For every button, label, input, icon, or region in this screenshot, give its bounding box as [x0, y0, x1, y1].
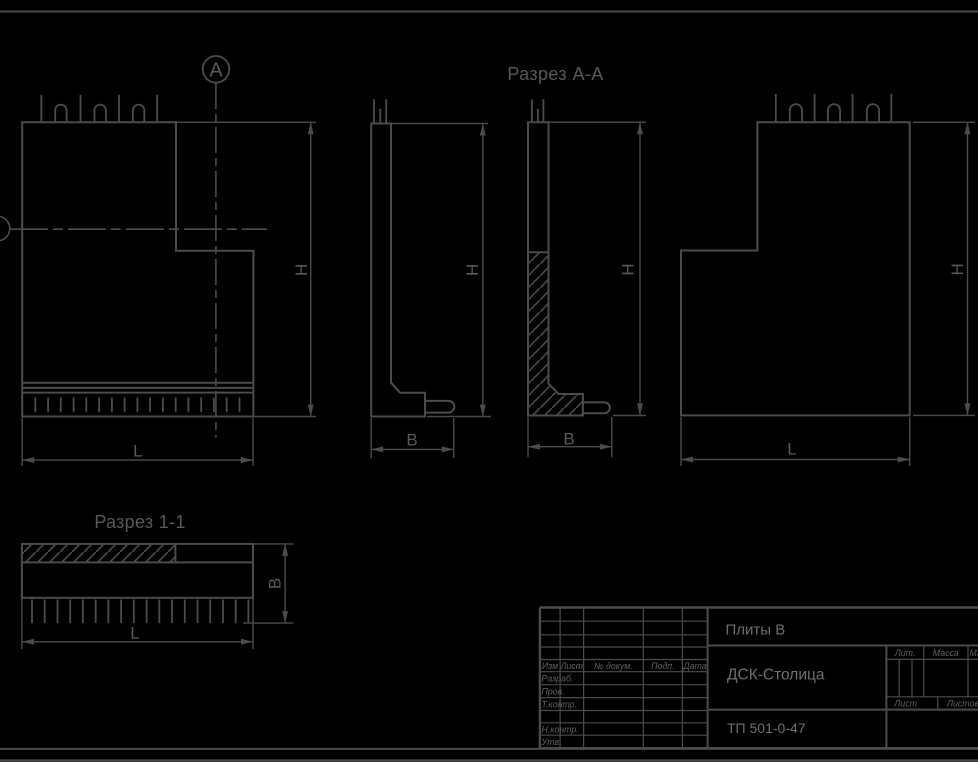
view5 dim L arrows — [22, 639, 253, 645]
svg-text:Разрез А-А: Разрез А-А — [507, 64, 603, 84]
view1 marker circle A — [203, 56, 230, 83]
view3 dim B line — [528, 446, 612, 448]
title block left columns — [560, 608, 682, 749]
view1 section line A vertical — [215, 83, 217, 438]
view2 dim H ext bottom — [427, 416, 491, 418]
view4 lifting bars — [776, 94, 892, 122]
view4 dim L arrows — [681, 457, 910, 463]
svg-text:№ докум.: № докум. — [594, 661, 633, 671]
svg-text:Лист: Лист — [559, 661, 583, 671]
svg-text:H: H — [463, 264, 482, 276]
view5 dim B arrows — [282, 544, 288, 623]
view1 outline — [22, 122, 253, 416]
view3 dim H ext bottom — [613, 415, 646, 417]
view4 dim H arrows — [965, 122, 971, 415]
view3 loop wires — [532, 99, 544, 122]
svg-text:Лист: Лист — [893, 699, 917, 709]
svg-text:Изм: Изм — [542, 661, 558, 671]
view2 bottom tab — [425, 401, 454, 413]
view5 dim L line — [22, 641, 253, 643]
view5 slab top line — [22, 561, 253, 563]
svg-text:L: L — [787, 440, 796, 459]
view1 dim L ext right — [252, 418, 254, 466]
view4 lifting loops — [790, 104, 879, 122]
view2 dim H arrows — [480, 124, 486, 417]
view2 dim H ext top — [391, 123, 488, 125]
svg-text:H: H — [948, 263, 967, 275]
svg-text:Масса: Масса — [933, 648, 959, 658]
view5 hatching — [22, 544, 176, 563]
view1 dim H extension bottom — [253, 416, 316, 418]
svg-text:L: L — [130, 624, 139, 643]
view2 outline — [371, 124, 425, 417]
view1 centerline horizontal — [10, 228, 267, 230]
view1 dim L ext left — [21, 418, 23, 466]
svg-text:H: H — [292, 264, 311, 276]
svg-text:L: L — [133, 442, 142, 461]
view1 dim L arrows — [22, 457, 253, 463]
view5 dim B ext top — [253, 543, 294, 545]
view3 dim H ext top — [549, 121, 647, 123]
view3 hatch boundary — [528, 251, 549, 253]
svg-text:Дата: Дата — [682, 661, 706, 671]
svg-text:Разраб.: Разраб. — [542, 674, 574, 684]
svg-text:Лит.: Лит. — [894, 648, 916, 658]
view3 dim H arrows — [637, 122, 643, 415]
view4 dim L ext right — [909, 417, 911, 466]
svg-text:B: B — [265, 578, 284, 589]
svg-text:Разрез 1-1: Разрез 1-1 — [94, 512, 185, 532]
view1 dim H line — [310, 122, 312, 416]
view3 dim B ext left — [527, 417, 529, 457]
view5 bottom ribs — [32, 600, 248, 624]
view3 dim H line — [639, 122, 641, 415]
view4 dim H line — [967, 122, 969, 415]
svg-text:B: B — [563, 430, 574, 449]
sheet edge bottom line — [0, 759, 978, 761]
view4 dim L ext left — [680, 417, 682, 466]
view2 dim B ext left — [370, 418, 372, 458]
view1 base line1 — [22, 382, 253, 384]
view1 left section circle — [0, 216, 10, 241]
view3 outline — [528, 122, 583, 415]
title block main dividers — [708, 608, 978, 749]
frame bottom border — [0, 748, 978, 750]
view4 dim H ext bottom — [913, 414, 975, 416]
svg-text:ДСК-Столица: ДСК-Столица — [727, 667, 825, 684]
view2 dim B arrows — [371, 446, 454, 452]
svg-text:Н.контр.: Н.контр. — [542, 725, 579, 735]
view3 dim B ext right — [611, 417, 613, 457]
svg-text:Утв.: Утв. — [541, 737, 562, 747]
svg-text:Масштаб: Масштаб — [969, 648, 978, 658]
view3 dim B arrows — [528, 444, 612, 450]
view4 dim L line — [681, 459, 910, 461]
view4 outline — [681, 122, 910, 415]
view1 base line3 — [22, 392, 253, 394]
view3 bottom tab — [583, 402, 610, 413]
title block — [540, 608, 978, 749]
view4 dim H ext top — [913, 121, 975, 123]
svg-text:B: B — [406, 430, 417, 449]
view2 loop wires — [374, 99, 386, 123]
title block outer border — [540, 608, 978, 749]
view1 dim H arrows — [308, 122, 314, 416]
view5 dim B line — [284, 544, 286, 623]
svg-text:Т.контр.: Т.контр. — [542, 700, 578, 710]
svg-text:Пров.: Пров. — [542, 687, 565, 697]
view1 dim L line — [22, 459, 253, 461]
view2 dim B ext right — [453, 418, 455, 458]
svg-text:Плиты В: Плиты В — [726, 622, 786, 639]
svg-text:ТП 501-0-47: ТП 501-0-47 — [727, 720, 806, 736]
title block left rows — [540, 621, 708, 735]
view5 dim B ext bottom — [243, 622, 294, 624]
title block lit/massa/masshtab cells — [886, 646, 978, 710]
view1 lifting bars — [41, 95, 157, 122]
view1 lifting loops — [55, 105, 144, 122]
view2 dim H line — [482, 124, 484, 417]
view1 base line2 — [22, 387, 253, 389]
view5 dim L ext right — [252, 598, 254, 649]
view5 dim L ext left — [21, 598, 23, 649]
view5 outline rect — [22, 544, 253, 598]
frame top border — [0, 11, 978, 13]
svg-text:H: H — [619, 263, 638, 275]
view3 hatching — [528, 252, 583, 415]
title block small labels — [541, 648, 978, 747]
view1 bottom ribs — [35, 398, 239, 413]
view5 hatch end line — [174, 544, 176, 563]
svg-text:Листов: Листов — [946, 699, 978, 709]
svg-text:Подп.: Подп. — [651, 661, 674, 671]
view2 dim B line — [371, 448, 454, 450]
view1 dim H extension top — [176, 121, 316, 123]
svg-text:А: А — [209, 60, 223, 82]
